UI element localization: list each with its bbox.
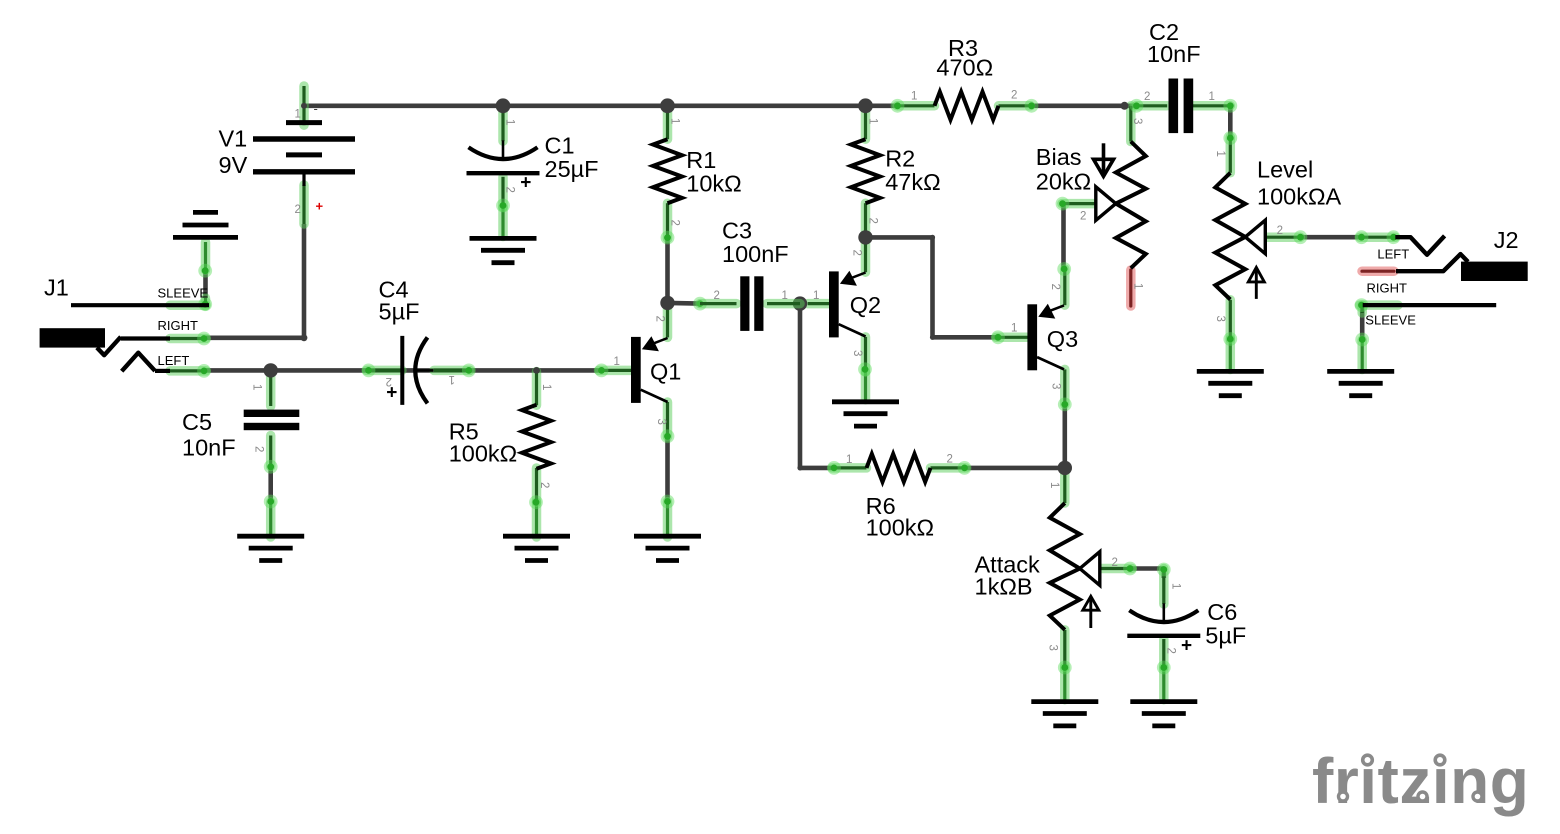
svg-text:47kΩ: 47kΩ	[885, 169, 940, 195]
svg-text:2: 2	[669, 220, 681, 226]
svg-text:LEFT: LEFT	[1377, 247, 1409, 262]
svg-text:2: 2	[1049, 284, 1061, 290]
svg-text:470Ω: 470Ω	[936, 55, 993, 81]
svg-text:1: 1	[782, 290, 788, 302]
svg-text:1: 1	[1170, 583, 1182, 589]
svg-text:1: 1	[1011, 323, 1017, 335]
svg-text:1kΩB: 1kΩB	[975, 573, 1033, 599]
svg-text:1: 1	[813, 290, 819, 302]
svg-text:1: 1	[1048, 482, 1060, 488]
svg-text:1: 1	[1214, 151, 1226, 157]
svg-text:100kΩA: 100kΩA	[1257, 184, 1342, 210]
svg-text:C6: C6	[1207, 599, 1237, 625]
svg-text:2: 2	[253, 446, 265, 452]
svg-text:+: +	[316, 199, 324, 214]
svg-text:C5: C5	[182, 409, 212, 435]
svg-text:5µF: 5µF	[379, 298, 420, 324]
svg-text:2: 2	[1165, 648, 1177, 654]
svg-text:100kΩ: 100kΩ	[449, 441, 518, 467]
svg-text:25µF: 25µF	[545, 156, 599, 182]
svg-text:3: 3	[1214, 316, 1226, 322]
svg-text:SLEEVE: SLEEVE	[1365, 313, 1416, 328]
svg-text:+: +	[1181, 635, 1192, 656]
svg-text:1: 1	[540, 384, 552, 390]
svg-text:R2: R2	[885, 146, 915, 172]
svg-text:RIGHT: RIGHT	[158, 318, 199, 333]
svg-text:-: -	[314, 101, 318, 116]
svg-text:J1: J1	[44, 275, 69, 301]
svg-text:2: 2	[386, 375, 392, 387]
svg-text:2: 2	[714, 290, 720, 302]
svg-text:Q1: Q1	[650, 359, 681, 385]
svg-text:3: 3	[851, 350, 863, 356]
svg-text:SLEEVE: SLEEVE	[158, 285, 209, 300]
svg-text:RIGHT: RIGHT	[1367, 281, 1408, 296]
svg-text:C1: C1	[545, 133, 575, 159]
svg-text:1: 1	[846, 454, 852, 466]
svg-text:Bias: Bias	[1036, 144, 1082, 170]
svg-text:1: 1	[614, 356, 620, 368]
svg-text:2: 2	[1112, 557, 1118, 569]
svg-text:2: 2	[1080, 211, 1086, 223]
svg-text:LEFT: LEFT	[158, 353, 190, 368]
svg-text:2: 2	[1277, 225, 1283, 237]
svg-text:1: 1	[867, 118, 879, 124]
svg-text:2: 2	[538, 482, 550, 488]
svg-text:+: +	[520, 173, 531, 194]
svg-text:2: 2	[867, 218, 879, 224]
svg-text:100kΩ: 100kΩ	[866, 515, 935, 541]
svg-text:2: 2	[1011, 90, 1017, 102]
svg-text:2: 2	[851, 250, 863, 256]
svg-text:10nF: 10nF	[1147, 41, 1201, 67]
svg-text:3: 3	[1131, 118, 1143, 124]
svg-text:3: 3	[1050, 383, 1062, 389]
svg-text:1: 1	[1132, 283, 1144, 289]
svg-text:1: 1	[449, 373, 455, 385]
svg-text:10nF: 10nF	[182, 434, 236, 460]
svg-text:3: 3	[1047, 645, 1059, 651]
svg-text:V1: V1	[219, 126, 248, 152]
svg-text:20kΩ: 20kΩ	[1036, 168, 1091, 194]
svg-text:10kΩ: 10kΩ	[686, 171, 741, 197]
svg-text:2: 2	[295, 204, 301, 216]
svg-text:1: 1	[669, 118, 681, 124]
svg-text:2: 2	[1144, 91, 1150, 103]
svg-text:5µF: 5µF	[1205, 623, 1246, 649]
svg-text:R1: R1	[686, 147, 716, 173]
svg-text:9V: 9V	[219, 152, 248, 178]
svg-text:Q2: Q2	[850, 292, 881, 318]
svg-text:1: 1	[911, 91, 917, 103]
svg-text:2: 2	[654, 316, 666, 322]
svg-text:1: 1	[251, 384, 263, 390]
svg-text:3: 3	[655, 419, 667, 425]
svg-text:J2: J2	[1494, 227, 1519, 253]
svg-text:1: 1	[504, 119, 516, 125]
svg-text:2: 2	[947, 454, 953, 466]
svg-text:C3: C3	[722, 217, 752, 243]
svg-text:fritzing: fritzing	[1312, 745, 1529, 817]
svg-text:2: 2	[504, 187, 516, 193]
svg-text:Q3: Q3	[1047, 326, 1078, 352]
svg-text:Level: Level	[1257, 157, 1313, 183]
svg-text:1: 1	[295, 109, 301, 121]
svg-text:1: 1	[1209, 91, 1215, 103]
svg-text:100nF: 100nF	[722, 241, 789, 267]
